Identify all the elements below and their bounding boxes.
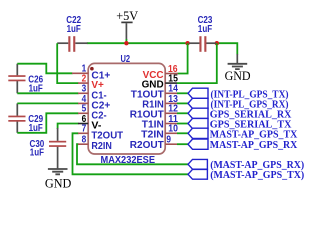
- wire pin13 to port: [177, 102, 188, 104]
- wire pin7 T2OUT to port (MAST-AP_GPS_TX): [73, 133, 189, 174]
- wire pin12 to port: [177, 112, 188, 114]
- capacitor C30: [30, 128, 67, 168]
- pin 7 T2OUT: [78, 124, 124, 142]
- wire pin10 to port: [177, 132, 188, 134]
- wire C22 left to pin2 V+: [57, 43, 78, 83]
- wire C23 right to GND drop: [217, 43, 238, 54]
- junction dot C23 right: [215, 41, 219, 45]
- svg-text:9: 9: [166, 135, 171, 146]
- svg-text:(MAST-AP_GPS_TX): (MAST-AP_GPS_TX): [210, 170, 304, 181]
- svg-text:GND: GND: [225, 69, 251, 83]
- wire C26 bottom to pin3 C1-: [17, 92, 78, 94]
- svg-text:MAX232ESE: MAX232ESE: [101, 155, 156, 166]
- pin 11 T1IN: [142, 114, 178, 131]
- port MAST-AP_GPS_RX: [188, 139, 298, 151]
- port INT-PL_GPS_TX: [188, 88, 289, 100]
- svg-text:1uF: 1uF: [30, 148, 44, 159]
- pin 2 V+: [78, 74, 104, 92]
- capacitor C22: [57, 15, 87, 52]
- svg-text:T2IN: T2IN: [141, 129, 164, 140]
- svg-text:GND: GND: [45, 177, 72, 191]
- svg-text:R2OUT: R2OUT: [130, 140, 165, 151]
- svg-text:10: 10: [168, 124, 178, 135]
- svg-text:7: 7: [82, 124, 87, 135]
- pin 8 R2IN: [78, 135, 112, 152]
- svg-text:U2: U2: [121, 54, 131, 65]
- svg-text:R2IN: R2IN: [91, 141, 111, 152]
- wire pin14 to port: [177, 92, 188, 94]
- port GPS_SERIAL_TX: [188, 118, 292, 130]
- pin 1 C1+: [72, 64, 110, 82]
- ground (right of C23): [225, 54, 251, 83]
- pin 4 C2+: [78, 94, 110, 112]
- wire C29 bottom to pin5 C2-: [17, 113, 78, 133]
- wire C29 top to pin4 C2+: [17, 102, 78, 104]
- pin 3 C1-: [78, 84, 107, 102]
- pin 15 GND: [142, 74, 178, 91]
- wire pin8 R2IN to port (MAST-AP_GPS_RX): [77, 144, 188, 164]
- wire pin6 V- to C30: [58, 124, 79, 130]
- pin 5 C2-: [78, 104, 107, 122]
- wire C26 top to pin1 C1+: [17, 64, 72, 74]
- port GPS_SERIAL_RX: [188, 108, 292, 120]
- pin 9 R2OUT: [130, 135, 177, 152]
- junction dot at +5V: [124, 41, 128, 45]
- pin 13 R1IN: [142, 94, 178, 111]
- pin 6 V-: [78, 114, 102, 132]
- pin 14 T1OUT: [131, 84, 178, 101]
- wire +5V stem to rail: [125, 39, 127, 43]
- IC U2 MAX232ESE: [88, 54, 165, 166]
- port (MAST-AP_GPS_RX) bottom: [188, 159, 304, 171]
- junction dot C23 left: [185, 41, 189, 45]
- wire pin16 VCC to +5V rail: [178, 43, 188, 73]
- capacitor C26: [8, 64, 43, 95]
- port (MAST-AP_GPS_TX) bottom: [188, 169, 304, 181]
- svg-text:MAST-AP_GPS_RX: MAST-AP_GPS_RX: [210, 140, 298, 151]
- capacitor C23: [189, 15, 216, 52]
- wire pin15 GND to C23 right: [177, 43, 217, 83]
- wire +5V rail: [87, 42, 188, 44]
- port INT-PL_GPS_RX: [188, 98, 289, 110]
- svg-text:8: 8: [82, 135, 87, 146]
- wire pin11 to port: [177, 123, 188, 125]
- svg-text:1uF: 1uF: [198, 24, 212, 35]
- ground (below C30): [45, 169, 72, 191]
- pin 10 T2IN: [141, 124, 178, 141]
- svg-text:1uF: 1uF: [67, 24, 81, 35]
- pin 12 R1OUT: [130, 104, 178, 121]
- pin 16 VCC: [143, 64, 178, 81]
- wire pin9 to port: [177, 143, 188, 145]
- +5V power symbol: [116, 9, 138, 40]
- svg-text:MAST-AP_GPS_TX: MAST-AP_GPS_TX: [210, 129, 298, 140]
- svg-text:+5V: +5V: [116, 9, 138, 23]
- capacitor C29: [8, 103, 43, 134]
- port MAST-AP_GPS_TX: [188, 128, 298, 140]
